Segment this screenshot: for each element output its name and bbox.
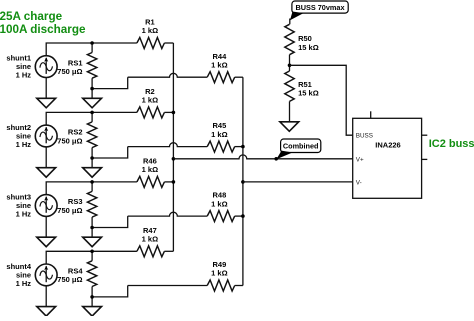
wire: RS1 bottom to step-up bbox=[92, 77, 128, 88]
node: divider midpoint bbox=[288, 64, 292, 68]
wire: R2 right lead bbox=[164, 111, 173, 113]
resistor R1 1 kOhm bbox=[137, 38, 165, 49]
label R2 1 kOhm bbox=[142, 87, 158, 105]
svg-text:V+: V+ bbox=[356, 157, 364, 164]
op-amp/IC U: INA226 body bbox=[353, 118, 422, 198]
wire: R49 right lead bbox=[235, 285, 243, 287]
resistor R48 1 kOhm bbox=[207, 211, 235, 222]
label R49 1 kOhm bbox=[211, 260, 227, 278]
current source shunt2 bbox=[35, 125, 57, 147]
node: bus A / R46 bbox=[172, 180, 176, 184]
wire: BUSS flag lead bbox=[289, 19, 291, 25]
svg-text:750 μΩ: 750 μΩ bbox=[57, 275, 82, 284]
wire: R1 right lead bbox=[164, 42, 173, 44]
svg-text:V-: V- bbox=[356, 179, 362, 186]
label RS2 750 uOhm bbox=[57, 128, 82, 146]
pin: INA226 right pin 1 bbox=[422, 134, 428, 136]
ground below RS2 bbox=[83, 168, 102, 178]
label RS4 750 uOhm bbox=[57, 267, 83, 285]
current source shunt1 bbox=[35, 56, 57, 78]
wire: shunt3 top rail bbox=[46, 182, 137, 195]
wire: R48 right lead bbox=[235, 215, 243, 217]
label shunt4 sine 1 Hz bbox=[6, 262, 31, 288]
node: bus A / R2 bbox=[172, 111, 176, 115]
wire: shunt2 bottom sense (hops over bus A) bbox=[128, 143, 208, 147]
wire: RS2 ground lead bbox=[91, 158, 93, 168]
svg-text:Combined: Combined bbox=[283, 142, 319, 151]
wire: R46 right lead bbox=[164, 181, 173, 183]
svg-text:1 kΩ: 1 kΩ bbox=[211, 60, 227, 69]
label R1 1 kOhm bbox=[142, 18, 158, 36]
label R48 1 kOhm bbox=[211, 191, 227, 209]
svg-text:750 μΩ: 750 μΩ bbox=[57, 206, 82, 215]
label R44 1 kOhm bbox=[211, 52, 227, 70]
svg-text:15 kΩ: 15 kΩ bbox=[298, 43, 319, 52]
wire: RS3 ground lead bbox=[91, 228, 93, 238]
wire: shunt3 ground lead bbox=[45, 216, 47, 237]
ground below shunt4 bbox=[37, 307, 56, 317]
ground below shunt3 bbox=[37, 237, 56, 247]
svg-text:1 Hz: 1 Hz bbox=[16, 210, 32, 219]
wire: RS2 bottom to step-up bbox=[92, 147, 128, 158]
node: bus B / V- wire bbox=[241, 180, 245, 184]
wire: shunt1 bottom sense (hops over bus A) bbox=[128, 73, 208, 77]
pin: INA226 top pin bbox=[370, 111, 372, 118]
svg-text:100A discharge: 100A discharge bbox=[0, 23, 86, 36]
label R50 15 kOhm bbox=[298, 34, 319, 52]
pin: INA226 right pin 2 bbox=[422, 158, 428, 160]
node: RS2 bottom junction bbox=[90, 156, 94, 160]
svg-text:25A charge: 25A charge bbox=[0, 10, 63, 23]
ground below shunt2 bbox=[37, 168, 56, 178]
wire: shunt2 ground lead bbox=[45, 147, 47, 168]
svg-text:750 μΩ: 750 μΩ bbox=[57, 136, 82, 145]
wire: shunt1 top rail bbox=[46, 43, 137, 56]
resistor R46 1 kOhm bbox=[137, 176, 165, 187]
resistor R2 1 kOhm bbox=[137, 107, 165, 118]
ground below R51 bbox=[280, 122, 299, 132]
label RS3 750 uOhm bbox=[57, 197, 82, 215]
label RS1 750 uOhm bbox=[57, 58, 82, 76]
node: bus A / V+ wire bbox=[172, 157, 176, 161]
svg-text:1 kΩ: 1 kΩ bbox=[142, 235, 158, 244]
svg-text:INA226: INA226 bbox=[375, 141, 400, 150]
label R46 1 kOhm bbox=[142, 157, 158, 175]
wire: RS4 bottom to step-up bbox=[92, 286, 128, 297]
node: bus B / R48 bbox=[241, 214, 245, 218]
wire: R50 to R51 bbox=[289, 55, 291, 71]
wire: bus B (V- sense bus) bbox=[242, 77, 244, 285]
wire: R51 ground lead bbox=[289, 101, 291, 121]
wire: R47 right lead bbox=[164, 250, 173, 252]
resistor RS4 750 uOhm bbox=[87, 251, 96, 297]
label shunt3 sine 1 Hz bbox=[6, 193, 31, 219]
current source shunt4 bbox=[35, 264, 57, 286]
svg-text:1 kΩ: 1 kΩ bbox=[142, 165, 158, 174]
resistor R45 1 kOhm bbox=[207, 141, 235, 152]
label shunt2 sine 1 Hz bbox=[6, 123, 31, 149]
current source shunt3 bbox=[35, 195, 57, 217]
ground below RS4 bbox=[83, 307, 102, 317]
resistor R51 15 kOhm bbox=[285, 71, 294, 101]
resistor R47 1 kOhm bbox=[137, 246, 165, 257]
resistor RS3 750 uOhm bbox=[87, 182, 96, 228]
wire: R45 right lead bbox=[235, 146, 243, 148]
wire: divider midpoint to INA226 BUSS pin bbox=[290, 65, 353, 135]
svg-text:1 kΩ: 1 kΩ bbox=[211, 269, 227, 278]
resistor R49 1 kOhm bbox=[207, 280, 235, 291]
node: RS3 top junction bbox=[90, 180, 94, 184]
wire: shunt4 ground lead bbox=[45, 286, 47, 307]
svg-text:IC2 buss: IC2 buss bbox=[429, 138, 474, 150]
svg-text:1 Hz: 1 Hz bbox=[16, 71, 32, 80]
node: RS4 bottom junction bbox=[90, 295, 94, 299]
ground below RS3 bbox=[83, 237, 102, 247]
ground below RS1 bbox=[83, 98, 102, 108]
svg-text:750 μΩ: 750 μΩ bbox=[57, 67, 82, 76]
net flag Combined bbox=[276, 139, 320, 159]
wire: shunt4 bottom sense bbox=[128, 285, 208, 287]
ground below shunt1 bbox=[37, 98, 56, 108]
wire: shunt2 top rail bbox=[46, 112, 137, 125]
svg-text:1 kΩ: 1 kΩ bbox=[142, 26, 158, 35]
node: RS3 bottom junction bbox=[90, 226, 94, 230]
wire: shunt3 bottom sense (hops over bus A) bbox=[128, 212, 208, 216]
wire: V- net to INA226 bbox=[243, 181, 353, 183]
resistor R44 1 kOhm bbox=[207, 72, 235, 83]
wire: shunt1 ground lead bbox=[45, 78, 47, 99]
node: RS1 top junction bbox=[90, 41, 94, 45]
net flag BUSS 70vmax bbox=[290, 1, 348, 20]
label R45 1 kOhm bbox=[211, 121, 227, 139]
svg-text:1 Hz: 1 Hz bbox=[16, 140, 32, 149]
svg-text:15 kΩ: 15 kΩ bbox=[298, 89, 319, 98]
wire: shunt4 top rail bbox=[46, 251, 137, 264]
label R47 1 kOhm bbox=[142, 226, 158, 244]
resistor RS1 750 uOhm bbox=[87, 43, 96, 89]
wire: RS4 ground lead bbox=[91, 297, 93, 307]
wire: V+ Combined net (hops over bus B) bbox=[173, 155, 352, 159]
svg-text:BUSS 70vmax: BUSS 70vmax bbox=[295, 3, 344, 12]
label R51 15 kOhm bbox=[298, 80, 319, 98]
node: RS1 bottom junction bbox=[90, 87, 94, 91]
node: RS4 top junction bbox=[90, 250, 94, 254]
svg-text:BUSS: BUSS bbox=[356, 132, 373, 139]
resistor RS2 750 uOhm bbox=[87, 112, 96, 158]
node: bus B / R45 bbox=[241, 145, 245, 149]
wire: bus A (V+ sense bus) bbox=[172, 43, 174, 251]
wire: R44 right lead bbox=[235, 76, 243, 78]
label shunt1 sine 1 Hz bbox=[6, 54, 31, 80]
svg-text:1 kΩ: 1 kΩ bbox=[211, 130, 227, 139]
svg-text:1 kΩ: 1 kΩ bbox=[142, 96, 158, 105]
wire: RS1 ground lead bbox=[91, 89, 93, 99]
resistor R50 15 kOhm bbox=[285, 24, 294, 54]
wire: RS3 bottom to step-up bbox=[92, 216, 128, 227]
node: RS2 top junction bbox=[90, 111, 94, 115]
svg-text:1 kΩ: 1 kΩ bbox=[211, 199, 227, 208]
node: Combined flag attach bbox=[274, 157, 278, 161]
svg-text:1 Hz: 1 Hz bbox=[16, 279, 32, 288]
